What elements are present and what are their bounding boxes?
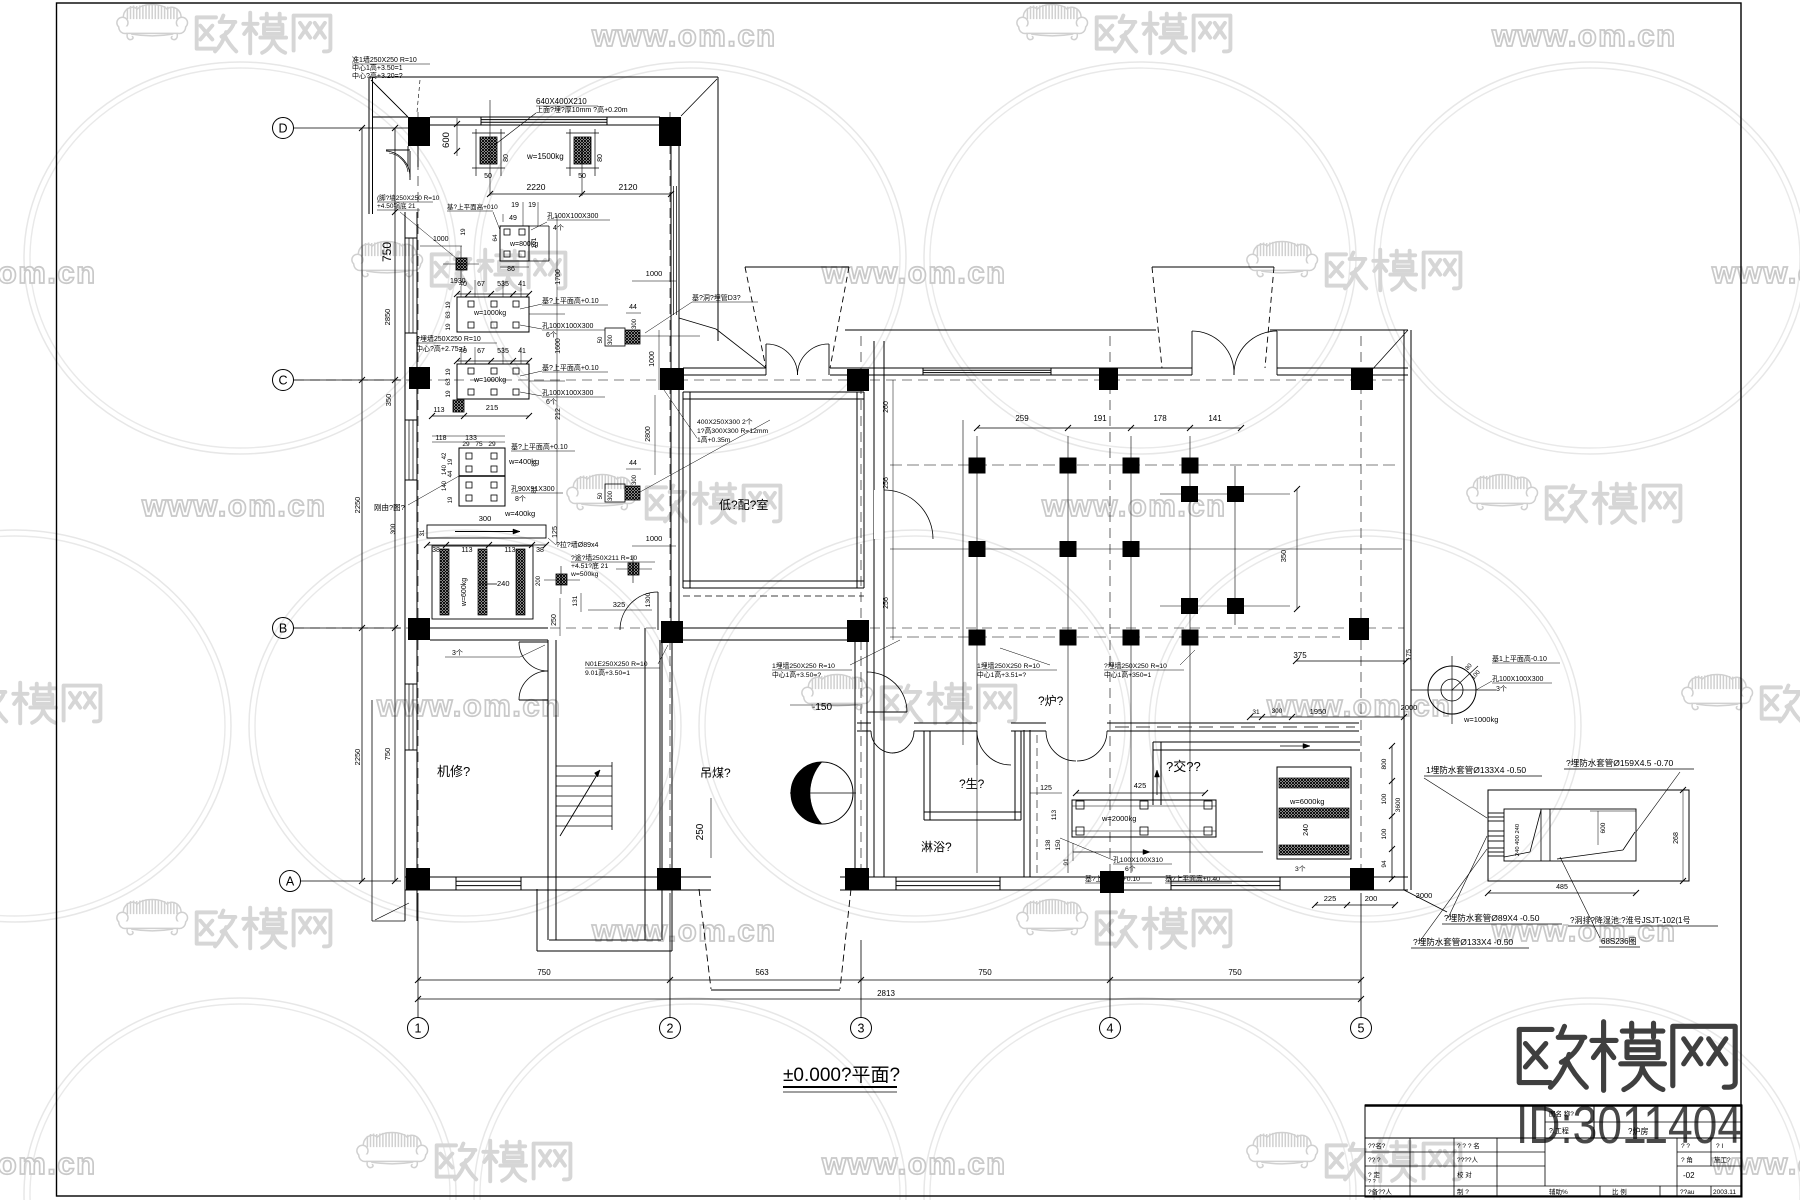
svg-text:3个: 3个 [1496,685,1507,693]
svg-text:300: 300 [1272,708,1283,715]
svg-text:125: 125 [1040,785,1052,792]
svg-text:350: 350 [384,394,393,407]
svg-text:140: 140 [442,464,448,475]
svg-text:制 ?: 制 ? [1457,1187,1469,1196]
svg-text:6个: 6个 [546,398,557,406]
svg-text:100: 100 [1381,793,1388,804]
svg-text:3000: 3000 [1416,891,1433,900]
watermark: tiled logos and urls [117,4,331,53]
canopy outline top-left [369,76,718,78]
svg-text:8个: 8个 [515,495,526,503]
svg-text:38: 38 [536,547,544,554]
svg-text:50: 50 [484,173,492,180]
left vertical dims [361,128,363,881]
svg-text:325: 325 [613,600,626,609]
dims 225/200/3000 [1315,904,1395,906]
svg-text:1000: 1000 [646,534,663,543]
svg-text:基?上平面高+0.10: 基?上平面高+0.10 [511,442,568,451]
svg-text:±0.000?平面?: ±0.000?平面? [783,1065,900,1086]
svg-text:100: 100 [1381,828,1388,839]
west entrance bay wall [372,116,408,118]
svg-text:94: 94 [1381,860,1388,868]
svg-text:准1墙250X250 R=10: 准1墙250X250 R=10 [352,55,417,64]
svg-text:200: 200 [1365,894,1378,903]
svg-text:42: 42 [442,452,448,459]
svg-text:800: 800 [1381,758,1388,769]
svg-text:44: 44 [448,470,454,477]
svg-text:1950: 1950 [1310,707,1327,716]
svg-text:300: 300 [632,474,638,485]
svg-text:? 角: ? 角 [1681,1155,1693,1164]
svg-text:113: 113 [1051,809,1058,820]
svg-text:260: 260 [883,401,890,413]
vestibule 1 doors [765,344,767,375]
svg-text:基?上平面高+010: 基?上平面高+010 [447,202,498,211]
svg-text:256: 256 [883,597,890,609]
stairs [556,765,612,767]
svg-text:3个: 3个 [1295,865,1306,873]
svg-text:140: 140 [442,480,448,491]
svg-text:?炉?: ?炉? [1038,694,1064,708]
svg-text:2120: 2120 [619,182,638,192]
svg-text:机修?: 机修? [437,764,470,779]
svg-text:2800: 2800 [645,426,652,442]
svg-text:50: 50 [598,492,604,499]
svg-text:2250: 2250 [353,497,362,514]
svg-text:中心1高+3.51=?: 中心1高+3.51=? [977,670,1026,679]
svg-text:中心1高+350=1: 中心1高+350=1 [1104,670,1151,679]
svg-text:44: 44 [629,460,637,467]
svg-text:淋浴?: 淋浴? [921,840,952,854]
svg-text:141: 141 [1208,414,1222,423]
svg-text:中心?高+2.75=1: 中心?高+2.75=1 [416,344,467,353]
doors on partition [871,731,893,753]
svg-text:50: 50 [598,336,604,343]
svg-text:131: 131 [572,595,579,606]
svg-text:19: 19 [445,390,452,398]
svg-text:上面?埋?厚10mm ?高+0.20m: 上面?埋?厚10mm ?高+0.20m [536,105,628,114]
transformer pads w=600kg [432,546,533,619]
svg-text:图名 称?: 图名 称? [1549,1109,1574,1118]
svg-text:施工?: 施工? [1714,1155,1731,1164]
svg-text:4个: 4个 [553,224,564,232]
svg-text:2003.11: 2003.11 [1713,1189,1736,1196]
svg-text:+4.50锅底 21: +4.50锅底 21 [377,201,416,210]
svg-text:91: 91 [1063,858,1070,866]
small pads near B wall [556,574,567,585]
svg-text:1000: 1000 [646,269,663,278]
svg-text:19: 19 [445,323,452,331]
svg-text:175: 175 [1406,649,1413,661]
svg-text:? ?: ? ? [1681,1143,1690,1150]
svg-text:孔100X100X300: 孔100X100X300 [1492,675,1543,683]
pump detail circle [1428,666,1476,714]
pads w=1500kg [480,137,497,164]
svg-text:1000: 1000 [649,351,656,367]
duct channel in transformer room [1153,741,1360,743]
arrow line lower [1073,851,1263,853]
svg-text:?拉?墙Ø89x4: ?拉?墙Ø89x4 [556,540,599,549]
right wall of boiler block [670,117,672,640]
svg-text:2813: 2813 [877,989,895,998]
duct with arrow [427,525,546,538]
svg-text:1埋防水套管Ø133X4 -0.50: 1埋防水套管Ø133X4 -0.50 [1426,765,1526,775]
svg-text:w=1000kg: w=1000kg [473,310,506,317]
hall right wall [1403,330,1405,890]
watermark: giant circles [24,62,456,454]
svg-text:125: 125 [552,526,559,538]
svg-text:比 例: 比 例 [1612,1187,1627,1196]
svg-text:w=2000kg: w=2000kg [1101,814,1136,823]
svg-text:19: 19 [511,202,519,209]
entrance door top-left [386,149,410,151]
wall pads 44x300 [605,328,625,346]
svg-text:535: 535 [497,281,509,288]
axis circle D [273,118,294,139]
svg-text:44: 44 [629,304,637,311]
svg-text:孔100X100X300: 孔100X100X300 [542,322,593,330]
svg-text:1000: 1000 [433,236,449,243]
svg-text:750: 750 [978,968,992,977]
title block table [1365,1105,1742,1197]
svg-text:225: 225 [1324,894,1337,903]
svg-text:113: 113 [461,547,472,554]
svg-text:2850: 2850 [383,309,392,326]
svg-text:w=1000kg: w=1000kg [473,377,506,384]
svg-text:?埋防水套管Ø89X4 -0.50: ?埋防水套管Ø89X4 -0.50 [1444,913,1540,923]
svg-text:? I: ? I [1716,1143,1723,1150]
svg-text:校 对: 校 对 [1457,1170,1472,1179]
svg-text:?埋墙250X250 R=10: ?埋墙250X250 R=10 [1104,661,1167,670]
svg-text:49: 49 [509,215,517,222]
svg-text:5: 5 [1358,1022,1365,1036]
svg-text:D: D [278,122,287,136]
svg-text:68S236图: 68S236图 [1601,937,1637,946]
svg-text:6个: 6个 [1125,865,1136,873]
svg-text:1700: 1700 [555,269,562,285]
svg-text:138: 138 [1045,839,1052,850]
svg-text:基?上平面高+0.10: 基?上平面高+0.10 [542,296,599,305]
pads w=1000kg [457,297,529,332]
svg-text:?洞排?降湿池:?淮号JSJT-102(1号: ?洞排?降湿池:?淮号JSJT-102(1号 [1570,915,1690,925]
grid circles 1-5 [408,1018,429,1039]
svg-text:240: 240 [1303,824,1310,836]
svg-text:19: 19 [448,496,454,503]
svg-text:?途?墙250X211 R=10: ?途?墙250X211 R=10 [571,553,637,562]
svg-text:3600: 3600 [1395,797,1402,812]
svg-text:64: 64 [492,234,499,242]
svg-text:19: 19 [445,368,452,376]
left outer wall with windows [404,212,406,890]
svg-text:?埋墙250X250 R=10: ?埋墙250X250 R=10 [416,334,481,343]
svg-text:81: 81 [531,459,538,467]
svg-text:2000: 2000 [1401,703,1418,712]
svg-text:256: 256 [883,477,890,489]
svg-text:240 400 240: 240 400 240 [1515,824,1521,856]
svg-text:3个: 3个 [452,649,463,657]
svg-text:212: 212 [555,408,562,420]
svg-text:750: 750 [383,748,392,761]
south splayed entrance [699,889,711,989]
vestibule 2 [1152,266,1274,268]
svg-text:250: 250 [695,823,706,840]
svg-text:????人: ????人 [1457,1156,1478,1164]
svg-text:1埋墙250X250 R=10: 1埋墙250X250 R=10 [977,661,1040,670]
hall top wall [683,367,766,369]
svg-text:19: 19 [448,458,454,465]
fan circle with crescent [791,762,853,824]
svg-text:B: B [279,622,287,636]
svg-text:67: 67 [477,281,485,288]
svg-text:1高+0.35m: 1高+0.35m [697,435,731,444]
svg-text:80: 80 [503,154,510,162]
dims near pump [1250,716,1404,718]
svg-text:1: 1 [415,1022,422,1036]
SW apron [404,890,406,921]
svg-text:1埋墙250X250 R=10: 1埋墙250X250 R=10 [772,661,835,670]
svg-text:-02: -02 [1683,1171,1695,1180]
svg-text:中心1高+3.50=?: 中心1高+3.50=? [772,670,821,679]
svg-text:3: 3 [858,1022,865,1036]
low-voltage room inner box [682,392,684,588]
svg-text:中心1高+3.50=1: 中心1高+3.50=1 [352,63,403,72]
svg-text:750: 750 [1228,968,1242,977]
svg-text:250: 250 [551,614,558,626]
svg-text:(脚?墙250X250 R=10: (脚?墙250X250 R=10 [377,193,440,202]
svg-text:?? ?: ?? ? [1368,1157,1381,1164]
svg-text:?备??人: ?备??人 [1368,1187,1392,1196]
svg-text:?埋防水套管Ø159X4.5 -0.70: ?埋防水套管Ø159X4.5 -0.70 [1566,758,1674,768]
svg-text:基1上平面高-0.10: 基1上平面高-0.10 [1492,654,1547,663]
svg-text:300: 300 [390,523,397,534]
svg-text:6个: 6个 [546,331,557,339]
pit inlet pipes [1488,812,1504,814]
svg-text:刚由?图?: 刚由?图? [374,502,405,512]
toilet room box [923,731,925,820]
svg-text:辅助%: 辅助% [1549,1187,1568,1196]
svg-text:基?上平面高+0.40: 基?上平面高+0.40 [1165,874,1220,883]
svg-text:113: 113 [504,547,515,554]
svg-text:?交??: ?交?? [1166,759,1201,774]
svg-text:485: 485 [1556,884,1568,891]
svg-text:??au: ??au [1680,1189,1695,1196]
svg-text:1?高300X300 R=12mm: 1?高300X300 R=12mm [697,426,769,435]
coal room door [866,672,868,712]
svg-text:9.01高+3.50=1: 9.01高+3.50=1 [585,668,630,677]
svg-text:A: A [286,875,295,889]
svg-text:w=6000kg: w=6000kg [1289,797,1324,806]
svg-text:2: 2 [667,1022,674,1036]
bottom wall with windows [405,876,711,878]
w=6000kg unit [1277,767,1351,859]
dim 2220/2120 [490,193,671,195]
svg-text:1600: 1600 [555,338,562,354]
svg-text:150: 150 [1055,839,1062,850]
svg-text:w=1000kg: w=1000kg [1463,715,1498,724]
svg-text:80: 80 [597,154,604,162]
shaft double door [519,641,548,643]
svg-text:113: 113 [433,407,444,414]
svg-text:63: 63 [445,311,452,319]
svg-text:19: 19 [528,202,536,209]
svg-text:2220: 2220 [527,182,546,192]
svg-text:基?洞?埋管D3?: 基?洞?埋管D3? [692,293,741,302]
svg-text:600: 600 [441,132,452,148]
svg-text:w=1500kg: w=1500kg [526,152,564,161]
svg-text:19: 19 [460,228,467,236]
equipment axis lines [890,464,1400,466]
svg-text:425: 425 [1134,781,1147,790]
svg-text:259: 259 [1015,414,1029,423]
walls flanking coal room [659,640,661,868]
svg-text:?炉房: ?炉房 [1628,1126,1648,1136]
svg-text:101: 101 [531,237,538,248]
structural columns [408,117,430,146]
svg-text:268: 268 [1673,832,1680,844]
bottom dim chains [418,979,1361,981]
svg-text:563: 563 [755,968,769,977]
pad w=400kg [459,448,505,506]
svg-text:基?上平面高+0.10: 基?上平面高+0.10 [542,363,599,372]
vestibule 2 doors [1191,331,1193,375]
svg-text:178: 178 [1153,414,1167,423]
svg-text:N01E250X250 R=10: N01E250X250 R=10 [585,661,648,668]
svg-text:600: 600 [1600,822,1607,833]
svg-text:-150: -150 [812,702,832,713]
svg-text:31: 31 [1252,709,1260,716]
svg-text:350: 350 [1279,550,1288,563]
svg-text:38: 38 [432,547,440,554]
top wall D with window [430,116,660,118]
canopy corner diagonals [371,80,408,117]
svg-text:750: 750 [380,242,394,262]
svg-text:? ?: ? ? [1368,1179,1376,1185]
svg-text:?埋防水套管Ø133X4 -0.50: ?埋防水套管Ø133X4 -0.50 [1413,937,1513,947]
small pad 1950 [456,258,467,270]
svg-text:41: 41 [518,348,526,355]
svg-text:41: 41 [518,281,526,288]
stair shaft walls [547,640,549,940]
svg-text:200: 200 [536,575,542,586]
w=2000kg unit [1072,800,1216,837]
vestibule 1 [745,266,849,268]
svg-text:孔100X100X310: 孔100X100X310 [1113,856,1163,864]
svg-text:300: 300 [479,514,492,523]
svg-text:?生?: ?生? [959,777,985,791]
svg-text:孔100X100X300: 孔100X100X300 [542,389,593,397]
svg-text:240: 240 [497,579,510,588]
interior wall B of block [430,627,548,629]
svg-text:? 定: ? 定 [1368,1170,1380,1179]
pit detail drawing [1488,790,1689,881]
svg-text:w=600kg: w=600kg [461,578,468,607]
svg-text:低?配?室: 低?配?室 [719,497,768,512]
svg-text:吊煤?: 吊煤? [700,766,731,780]
svg-text:C: C [278,374,287,388]
svg-text:640X400X210: 640X400X210 [536,97,587,106]
hall canopy line [845,329,1156,331]
svg-text:81: 81 [531,486,538,494]
wall under room to B [672,627,855,629]
svg-text:19: 19 [445,301,452,309]
svg-text:??名?: ??名? [1368,1141,1386,1150]
svg-text:375: 375 [1293,651,1307,660]
wall between toilet and transformer room [1023,730,1025,877]
axis dash lines [417,112,419,895]
svg-text:215: 215 [486,403,499,412]
svg-text:w=500kg: w=500kg [570,571,599,578]
equipment dims 259/191/178/141 [977,427,1241,429]
svg-text:? ? ? 名: ? ? ? 名 [1457,1141,1480,1150]
svg-text:67: 67 [477,348,485,355]
svg-text:400X250X300 2个: 400X250X300 2个 [697,418,753,426]
svg-text:300: 300 [608,490,614,501]
svg-text:w=400kg: w=400kg [504,509,535,518]
svg-text:750: 750 [537,968,551,977]
svg-text:?.工程: ?.工程 [1549,1126,1569,1135]
svg-text:63: 63 [445,378,452,386]
svg-text:中心?高+3.20=?: 中心?高+3.20=? [352,71,403,80]
door in hall-left wall [874,490,884,539]
svg-text:2250: 2250 [353,749,362,766]
hall-left wall [873,341,875,877]
svg-text:31: 31 [420,529,426,536]
svg-text:40: 40 [459,281,467,288]
pad w=800kg [500,226,529,261]
small pad 113/215 [453,400,464,412]
stair bay protrusion [536,889,538,951]
door on axis2 wall [620,591,657,593]
big site logo OU MO WANG [1519,1026,1586,1087]
svg-text:1300: 1300 [645,592,652,607]
rooms partition wall [857,722,871,724]
svg-text:191: 191 [1093,414,1107,423]
svg-text:300: 300 [632,318,638,329]
svg-text:300: 300 [608,334,614,345]
svg-text:535: 535 [497,348,509,355]
leaders from pit to labels [1448,836,1487,918]
svg-text:4: 4 [1107,1022,1114,1036]
equipment footing columns [969,458,986,474]
svg-text:+4.51?底 21: +4.51?底 21 [571,561,608,570]
svg-text:孔100X100X300: 孔100X100X300 [547,212,598,220]
